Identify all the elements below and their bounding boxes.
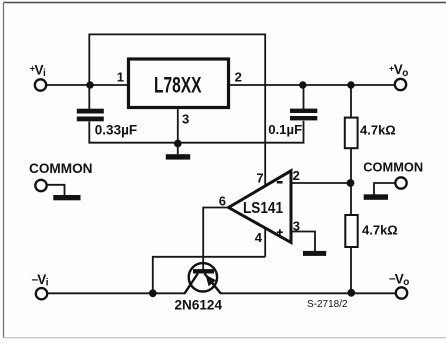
svg-text:i: i	[46, 278, 49, 289]
svg-text:2: 2	[293, 168, 300, 183]
svg-text:0.33µF: 0.33µF	[95, 123, 137, 138]
svg-text:o: o	[403, 277, 409, 288]
svg-text:L78XX: L78XX	[154, 72, 202, 97]
svg-text:LS141: LS141	[243, 200, 283, 217]
svg-text:3: 3	[182, 111, 189, 126]
svg-text:4: 4	[255, 230, 263, 245]
svg-text:3: 3	[293, 218, 300, 233]
svg-text:4.7kΩ: 4.7kΩ	[362, 222, 398, 237]
svg-text:1: 1	[117, 69, 124, 84]
svg-text:7: 7	[256, 171, 263, 186]
svg-text:i: i	[43, 68, 46, 79]
svg-text:COMMON: COMMON	[29, 161, 93, 176]
svg-text:4.7kΩ: 4.7kΩ	[360, 122, 396, 137]
svg-text:0.1µF: 0.1µF	[268, 122, 302, 137]
svg-text:o: o	[402, 68, 408, 79]
svg-text:2: 2	[235, 69, 242, 84]
svg-text:S-2718/2: S-2718/2	[307, 299, 348, 310]
svg-text:2N6124: 2N6124	[175, 296, 223, 312]
svg-text:6: 6	[219, 194, 226, 209]
svg-text:COMMON: COMMON	[363, 159, 423, 174]
